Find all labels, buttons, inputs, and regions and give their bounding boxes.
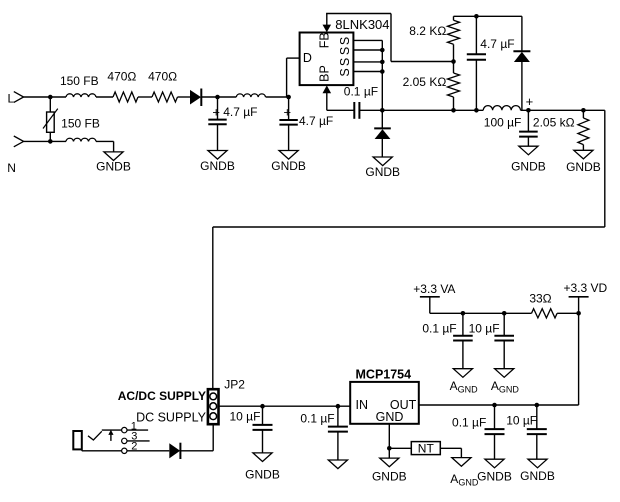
svg-text:470Ω: 470Ω (107, 69, 136, 83)
svg-text:N: N (7, 161, 16, 175)
resistor 2.05K (453, 62, 455, 74)
svg-text:D: D (303, 51, 312, 65)
svg-text:GNDB: GNDB (477, 470, 512, 484)
IC U2 MCP1754 (350, 382, 419, 424)
svg-text:GNDB: GNDB (566, 160, 601, 174)
wire (24, 140, 66, 142)
wire VD-drop (578, 313, 580, 405)
capacitor C9 10uF (262, 406, 264, 425)
resistor 33 (532, 309, 558, 318)
wire (24, 96, 66, 98)
IC U1 8LNK304 (300, 33, 354, 86)
node C8-top (502, 311, 507, 316)
svg-text:MCP1754: MCP1754 (356, 368, 412, 382)
capacitor C7 0.1uF (462, 313, 464, 335)
svg-text:10 µF: 10 µF (230, 409, 261, 423)
svg-text:0.1 µF: 0.1 µF (344, 85, 378, 99)
varistor RV1 (49, 97, 51, 112)
node S2 (380, 48, 385, 53)
svg-text:+3.3 VA: +3.3 VA (413, 282, 455, 296)
capacitor C8 10uF (503, 313, 505, 335)
svg-text:GNDB: GNDB (365, 165, 400, 179)
node GND (387, 446, 392, 451)
wire (127, 450, 169, 452)
svg-text:8.2 KΩ: 8.2 KΩ (409, 24, 446, 38)
svg-text:+: + (212, 105, 220, 120)
svg-text:NT: NT (418, 441, 435, 455)
wire GND-pin (388, 424, 390, 458)
svg-text:8LNK304: 8LNK304 (335, 17, 389, 32)
node C12-top (535, 403, 540, 408)
diode D4 (169, 443, 180, 458)
resistor 470-1 (113, 92, 138, 102)
ground AGND-C8 (495, 369, 514, 378)
thermistor NT (411, 442, 440, 455)
svg-text:S: S (338, 68, 352, 76)
wire OUT (419, 404, 579, 406)
ground GNDB-C2 (279, 151, 298, 160)
svg-text:0.1 µF: 0.1 µF (300, 411, 334, 425)
capacitor C1 4.7uF (217, 97, 219, 120)
diode D3 (521, 16, 523, 51)
svg-text:BP: BP (318, 65, 332, 82)
svg-text:IN: IN (356, 398, 369, 412)
node C9-top (260, 404, 265, 409)
capacitor C10 0.1uF (337, 406, 339, 426)
ground GNDB-D2 (373, 157, 392, 166)
svg-text:150 FB: 150 FB (61, 117, 100, 131)
node C2-top (286, 95, 291, 100)
node L-junction (48, 95, 53, 100)
inductor 150FB-1 (66, 94, 96, 97)
wire (201, 96, 236, 98)
wire (266, 96, 289, 98)
node D2-top (380, 108, 385, 113)
connector JP2 (208, 389, 219, 424)
wire (389, 447, 411, 449)
wire (138, 96, 152, 98)
svg-text:DC SUPPLY: DC SUPPLY (136, 411, 207, 425)
svg-text:AC/DC SUPPLY: AC/DC SUPPLY (118, 389, 206, 403)
ground GNDB-N (104, 152, 123, 161)
wire (96, 96, 113, 98)
ground GNDB-R (574, 150, 593, 159)
wire (557, 312, 579, 314)
node FB-div (451, 59, 456, 64)
svg-text:L: L (8, 91, 15, 105)
svg-text:GNDB: GNDB (200, 159, 235, 173)
wire (440, 447, 461, 449)
wire (521, 109, 605, 111)
svg-text:+3.3 VD: +3.3 VD (564, 281, 608, 295)
svg-text:4.7 µF: 4.7 µF (480, 37, 514, 51)
capacitor C3 0.1uF (327, 109, 355, 111)
wire D-pin (286, 58, 288, 97)
svg-text:GNDB: GNDB (245, 468, 280, 482)
capacitor C11 0.1uF (494, 405, 496, 429)
wire FB-net (326, 13, 391, 15)
svg-text:GNDB: GNDB (96, 160, 131, 174)
pin FB arrow (323, 25, 332, 33)
resistor 2.05k (581, 108, 586, 113)
wire (359, 109, 483, 111)
svg-text:JP2: JP2 (224, 377, 245, 391)
ground GNDB-C1 (208, 151, 227, 160)
node C4-bot (474, 108, 479, 113)
svg-text:0.1 µF: 0.1 µF (422, 321, 456, 335)
node 2.05K-bot (451, 108, 456, 113)
capacitor C5 100uF (527, 110, 529, 131)
node C5-top (526, 108, 531, 113)
svg-text:GNDB: GNDB (271, 159, 306, 173)
svg-text:100 µF: 100 µF (484, 116, 522, 130)
wire (96, 140, 114, 142)
wire VA-rail (430, 312, 532, 314)
inductor L4 (483, 106, 520, 111)
svg-text:4.7 µF: 4.7 µF (223, 105, 257, 119)
capacitor C2 4.7uF (288, 97, 290, 120)
svg-text:+: + (526, 94, 534, 109)
svg-text:GND: GND (376, 410, 404, 424)
svg-text:S: S (338, 47, 352, 55)
resistor 470-2 (152, 92, 178, 102)
svg-text:S: S (338, 58, 352, 66)
svg-text:2.05 kΩ: 2.05 kΩ (533, 116, 575, 130)
wire (180, 450, 213, 452)
svg-text:470Ω: 470Ω (148, 69, 177, 83)
svg-text:FB: FB (318, 32, 332, 48)
inductor L2 (236, 94, 265, 97)
node rail-C4 (474, 14, 479, 19)
diode D2 (381, 110, 383, 128)
ground tri-C10 (328, 460, 347, 469)
svg-text:150 FB: 150 FB (60, 74, 99, 88)
svg-text:GNDB: GNDB (520, 469, 555, 483)
ground GNDB-C9 (253, 453, 272, 462)
node C11-top (492, 403, 497, 408)
pin BP arrow (323, 85, 332, 93)
wire bus (604, 110, 606, 227)
node C7-top (461, 311, 466, 316)
svg-text:10 µF: 10 µF (506, 413, 537, 427)
ground GNDB-C12 (528, 459, 547, 468)
svg-text:GNDB: GNDB (511, 160, 546, 174)
dc jack J1 (73, 431, 82, 449)
wire (178, 96, 191, 98)
node S3 (380, 60, 385, 65)
svg-text:4.7 µF: 4.7 µF (299, 114, 333, 128)
svg-text:+: + (284, 105, 292, 120)
ground GNDB-C5 (519, 146, 538, 155)
svg-text:2.05 KΩ: 2.05 KΩ (403, 75, 447, 89)
node C1-top (215, 95, 220, 100)
ground GNDB-C11 (485, 459, 504, 468)
wire JP2-IN (219, 405, 351, 407)
capacitor C12 10uF (536, 405, 538, 429)
inductor 150FB-2 (66, 138, 96, 141)
svg-text:GNDB: GNDB (372, 470, 407, 484)
node N-junction (48, 139, 53, 144)
svg-text:10 µF: 10 µF (469, 321, 500, 335)
node S4 (380, 69, 385, 74)
svg-text:S: S (338, 37, 352, 45)
ground GNDB-U2 (380, 458, 399, 467)
svg-text:0.1 µF: 0.1 µF (452, 416, 486, 430)
wire top-rail (454, 15, 522, 17)
resistor 8.2K (453, 16, 455, 20)
node C10-top (336, 404, 341, 409)
ground AGND-C7 (453, 369, 472, 378)
pin S wires (353, 39, 382, 41)
node VD (576, 311, 581, 316)
capacitor C4 4.7uF (475, 16, 477, 54)
ground AGND-NT (452, 458, 471, 467)
svg-text:33Ω: 33Ω (529, 292, 551, 306)
diode D1 (190, 90, 201, 105)
